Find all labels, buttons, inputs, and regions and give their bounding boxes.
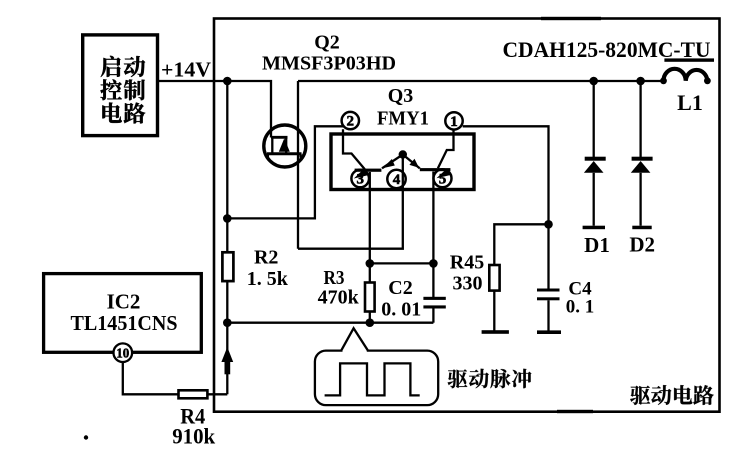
pin 3 circle of Q3 (351, 170, 369, 188)
svg-text:1: 1 (450, 114, 458, 130)
Q3 right transistor base bar (420, 168, 451, 171)
capacitor C4 (537, 289, 560, 292)
diode D1 (593, 81, 595, 157)
resistor R4 (179, 390, 208, 398)
svg-text:D2: D2 (629, 233, 655, 257)
Q3 right transistor emitter arrow (437, 169, 451, 178)
pin 5 circle of Q3 (434, 169, 452, 187)
wire C4 node left to R45 top (494, 224, 548, 265)
diode D2 (639, 81, 641, 157)
Q3 left transistor emitter arrow (354, 169, 368, 178)
stray dot bottom left (84, 435, 88, 439)
wire junction C2 top node (429, 259, 438, 268)
Q3 left transistor collector stroke (343, 129, 365, 169)
wire R3 bottom to gate-return rail (369, 312, 371, 323)
label 驱动脉冲 drive pulse (448, 369, 468, 388)
svg-text:L1: L1 (677, 90, 703, 115)
wire junction main rail at D2 (636, 77, 645, 86)
wire pin3 node to C2 top node (370, 262, 434, 264)
wire Q3 pin1 to C4 branch (463, 126, 549, 289)
wire junction R2 line at gate wire (223, 214, 232, 223)
wire IC2 pin10 to R4 (123, 361, 179, 394)
svg-text:10: 10 (116, 347, 129, 362)
wire bottom rail R2 to C2 (227, 322, 433, 324)
wire R4 to R2 branch (207, 393, 227, 395)
svg-text:470k: 470k (318, 287, 360, 309)
wire main rail Q2 drain to L1 (298, 80, 663, 82)
Q3 right transistor collector stroke (438, 130, 454, 169)
wire pin5 lead down to C2 (432, 172, 434, 298)
ground bar under C4 (537, 330, 561, 334)
wire junction main rail at D1 (589, 77, 598, 86)
pin 4 circle of Q3 (387, 170, 405, 188)
svg-text:330: 330 (453, 273, 483, 295)
svg-text:0. 01: 0. 01 (381, 299, 421, 321)
current direction arrow on R2 branch (221, 347, 233, 362)
transistor pair Q3 FMY1 package box (331, 134, 474, 190)
drive pulse waveform (325, 363, 420, 395)
wire junction pin3/R3 top node (366, 259, 375, 268)
svg-text:CDAH125-820MC-TU: CDAH125-820MC-TU (503, 37, 711, 62)
svg-text:TL1451CNS: TL1451CNS (71, 311, 178, 335)
wire Q2 drain vertical through MOSFET down to Q3 pin4 feed (297, 81, 299, 249)
node junction pin4 bases (399, 150, 407, 158)
svg-text:R2: R2 (254, 247, 278, 269)
wire pin3 lead down to R3 (369, 172, 371, 283)
Q3 left transistor base bar (355, 169, 382, 172)
wire Q3 pin2 to R2 line junction (227, 126, 343, 218)
resistor R45 (489, 265, 499, 291)
pin 10 circle of IC2 (114, 343, 133, 362)
startup control block 启动控制电路 (83, 35, 158, 136)
svg-text:0. 1: 0. 1 (566, 297, 595, 318)
drive circuit outer border box (214, 19, 720, 412)
wire junction bottom rail at R2 (223, 318, 232, 327)
drive pulse callout bubble (315, 351, 438, 406)
wire R2 branch from +14V down to R4 node (226, 81, 228, 394)
underline below title (664, 58, 714, 61)
svg-text:Q2: Q2 (314, 32, 340, 54)
resistor R3 (365, 283, 375, 312)
IC IC2 TL1451CNS box (44, 274, 202, 353)
wire R45 bottom to ground (493, 291, 495, 331)
svg-text:1. 5k: 1. 5k (247, 268, 289, 290)
svg-text:R45: R45 (450, 252, 484, 274)
pin 2 circle of Q3 (342, 112, 359, 129)
svg-text:4: 4 (393, 172, 401, 188)
svg-text:2: 2 (347, 114, 355, 130)
resistor R2 (222, 252, 233, 281)
svg-text:MMSF3P03HD: MMSF3P03HD (262, 53, 396, 75)
label 驱动电路 drive circuit (630, 386, 650, 405)
wire junction at R2 top (223, 77, 232, 86)
capacitor C2 (423, 297, 445, 300)
svg-text:C2: C2 (388, 277, 412, 299)
inductor L1 (660, 77, 667, 84)
pin 1 circle of Q3 (445, 112, 462, 129)
wire +14V from startup block to Q2 source (158, 81, 272, 138)
wire junction bottom rail at R3 (366, 318, 375, 327)
Q3 left base lead with arrow from pin4 node (382, 155, 403, 169)
ground bar under R45 (482, 330, 509, 334)
svg-text:IC2: IC2 (107, 290, 141, 314)
svg-text:Q3: Q3 (388, 85, 414, 107)
svg-text:910k: 910k (172, 424, 216, 449)
svg-text:D1: D1 (584, 233, 610, 257)
Q3 right base lead with arrow from pin4 node (403, 155, 420, 169)
outer border thick segment top (541, 17, 601, 20)
svg-text:+14V: +14V (161, 58, 211, 82)
transistor Q2 MOSFET symbol (264, 125, 306, 167)
outer border thick segment bottom (557, 410, 593, 413)
wire junction C4 node (544, 220, 553, 229)
wire pin4 lead down and left to Q2 drain line (298, 155, 403, 249)
svg-text:FMY1: FMY1 (377, 108, 429, 130)
